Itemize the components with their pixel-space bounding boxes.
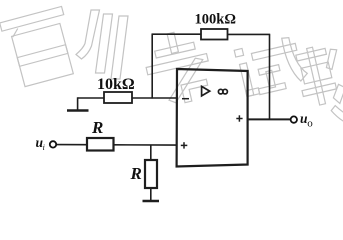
svg-text:R: R [130,164,142,183]
svg-text:10kΩ: 10kΩ [97,76,135,93]
svg-text:R: R [91,118,103,137]
svg-text:o: o [307,118,313,130]
svg-text:100kΩ: 100kΩ [195,12,236,28]
